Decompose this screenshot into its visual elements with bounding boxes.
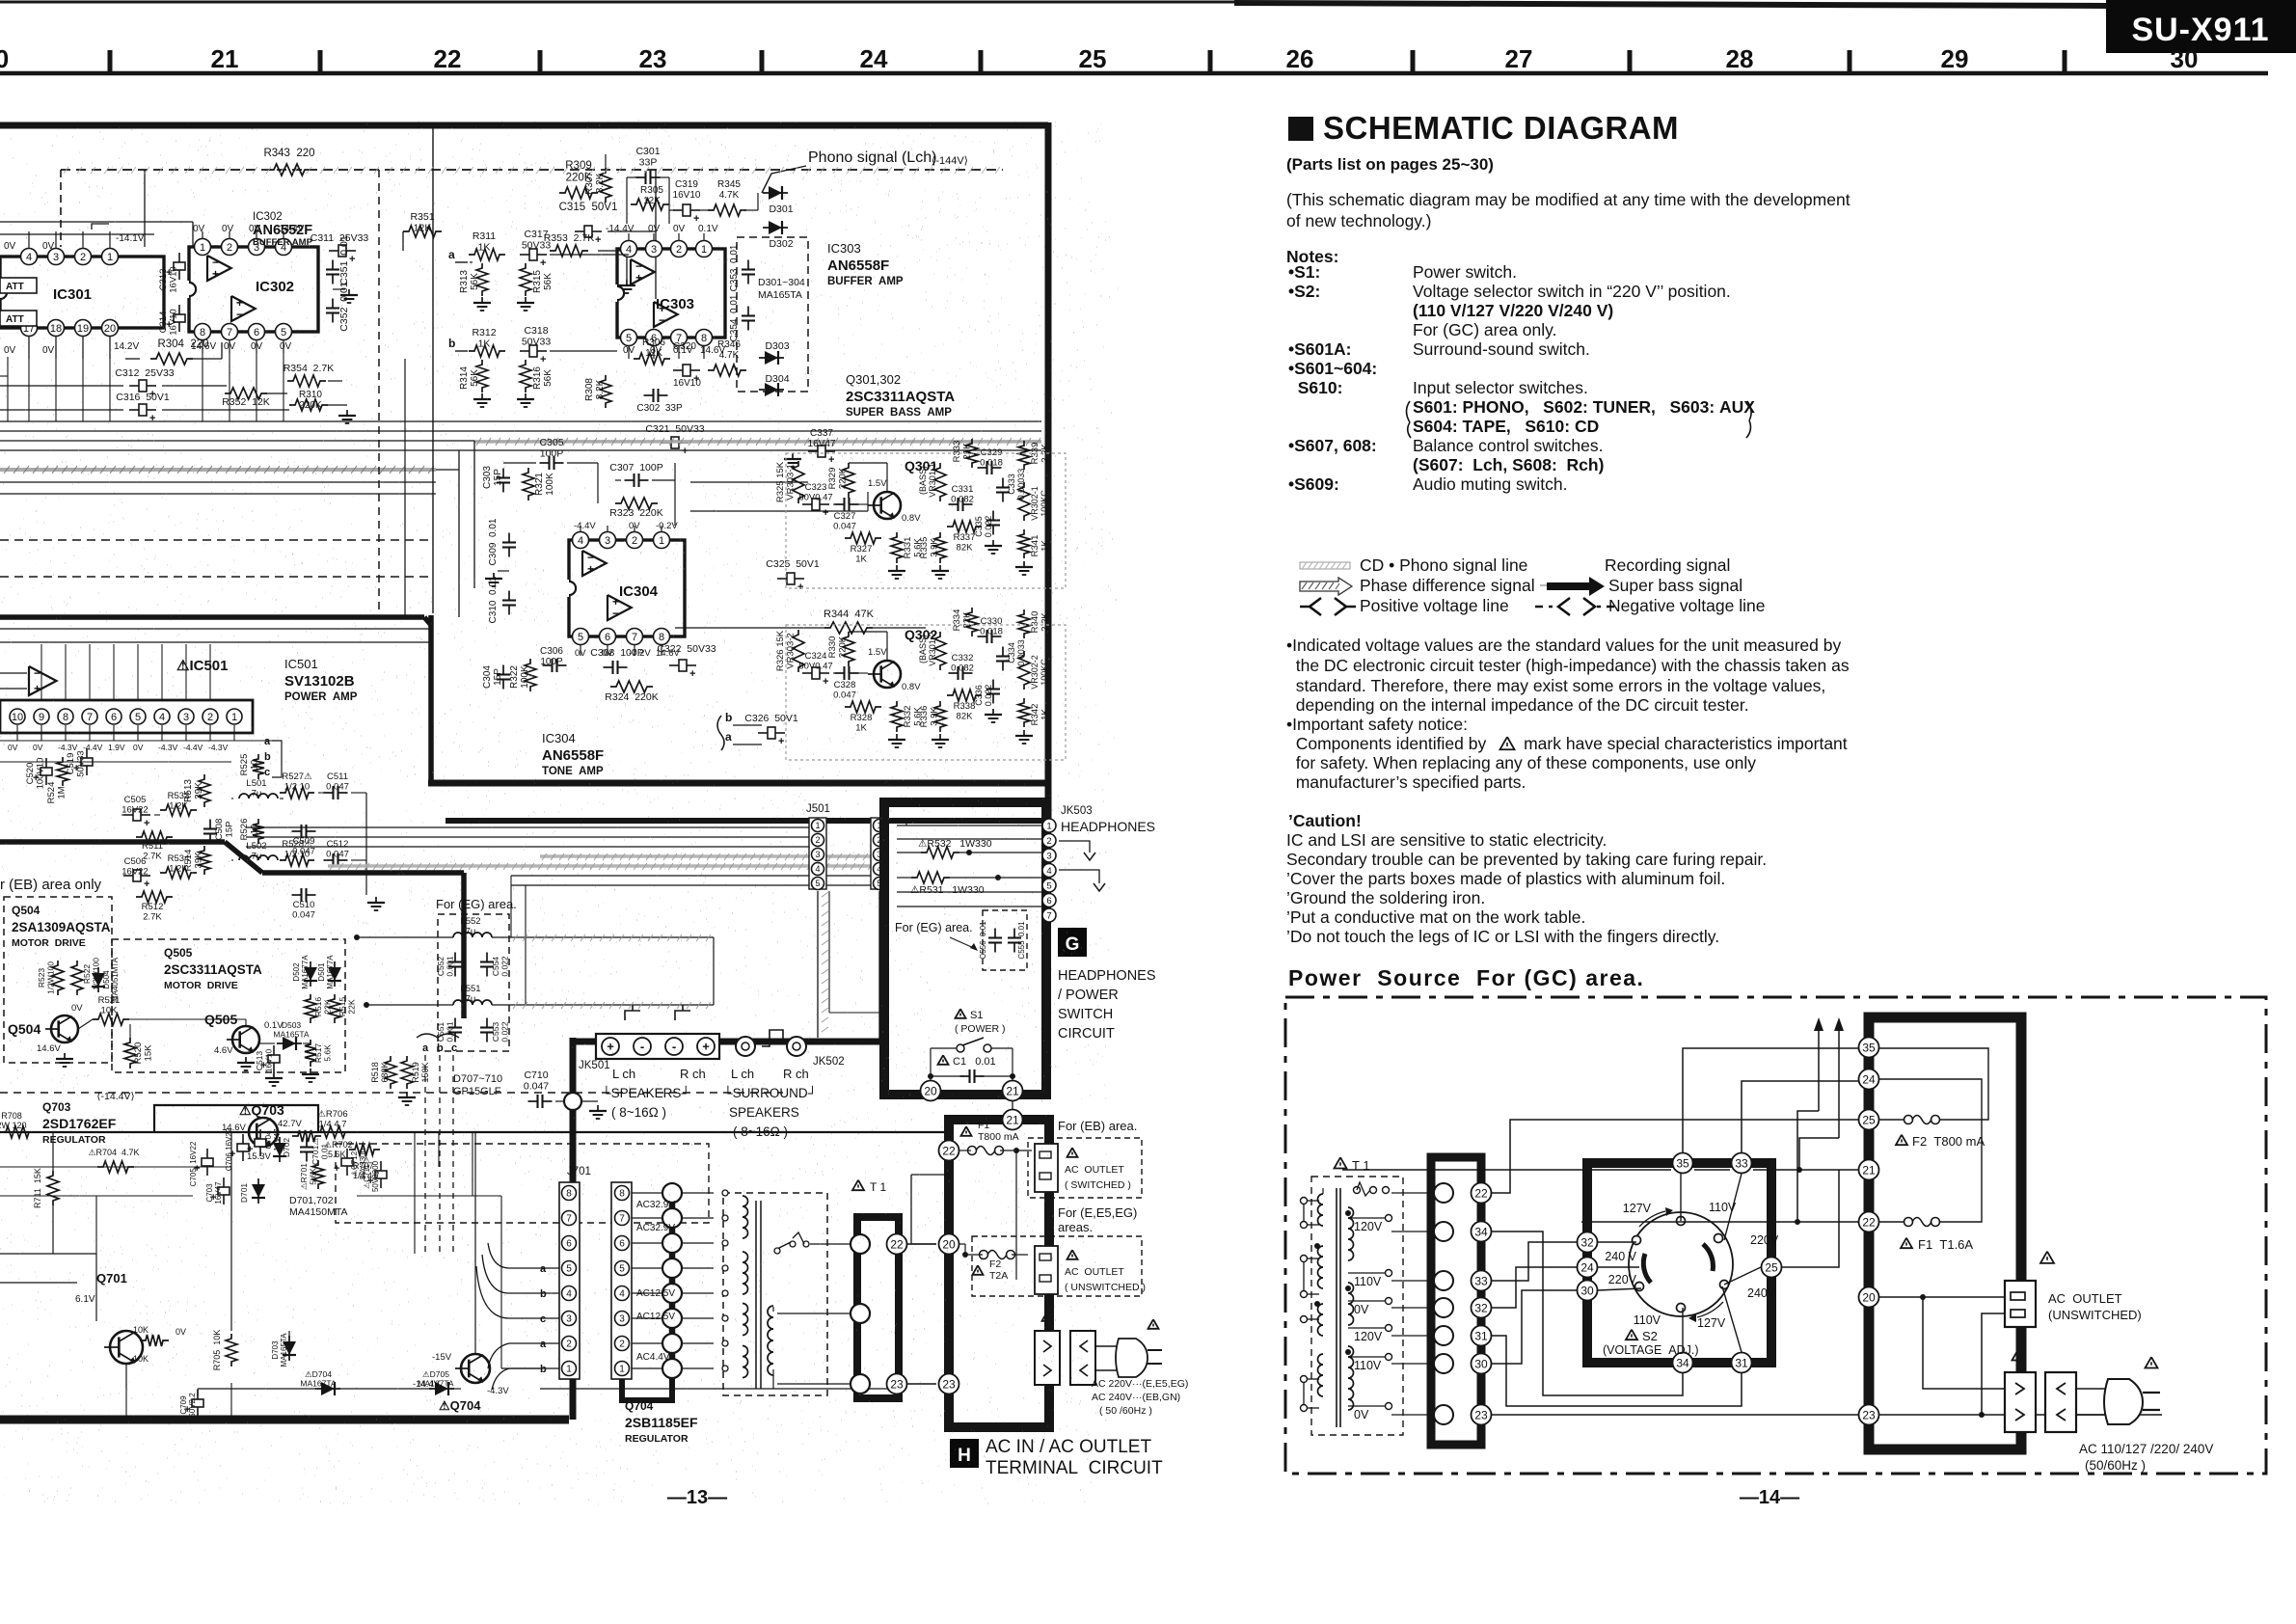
svg-text:IC303: IC303 [827,241,861,256]
svg-text:+: + [540,354,546,365]
svg-text:R340: R340 [1030,611,1040,634]
capacitor C711 [375,1171,387,1178]
svg-text:Secondary trouble can be preve: Secondary trouble can be prevented by ta… [1286,850,1767,869]
bus drop wires to speakers [510,876,512,937]
svg-text:SWITCH: SWITCH [1058,1007,1113,1022]
svg-text:R304 220: R304 220 [157,338,208,350]
IC501 opamp [29,666,57,695]
capacitor C332 0.082 [949,672,959,674]
svg-text:16V22: 16V22 [122,867,148,878]
svg-text:-4.4V: -4.4V [183,743,203,752]
svg-text:100K: 100K [545,473,555,496]
svg-text:R708: R708 [1,1111,22,1121]
power switch on secondary [777,1242,791,1249]
svg-text:R516: R516 [313,997,323,1017]
svg-text:TERMINAL CIRCUIT: TERMINAL CIRCUIT [986,1458,1163,1478]
svg-text:R520: R520 [133,1042,144,1065]
svg-text:For (EG) area.: For (EG) area. [436,897,517,911]
svg-text:33: 33 [1735,1156,1748,1170]
svg-text:16V47: 16V47 [214,1181,223,1204]
svg-text:C308 100P: C308 100P [590,647,643,659]
selector terminal 31 bottom [1732,1353,1752,1373]
resistor R526 [253,819,264,844]
svg-text:a: a [422,1042,429,1054]
AC connector circles [851,1234,870,1254]
svg-text:1: 1 [107,252,113,263]
svg-text:0.047: 0.047 [524,1081,549,1093]
svg-text:Surround-sound switch.: Surround-sound switch. [1413,339,1590,359]
svg-text:R354 2.7K: R354 2.7K [284,363,335,374]
capacitor C520 [41,768,52,775]
svg-text:7μ: 7μ [252,852,262,862]
svg-text:+: + [212,267,219,281]
resistor R345 [708,204,746,216]
IC301 package [0,257,164,328]
svg-text:GP15GLF: GP15GLF [453,1086,501,1097]
ATT box 1 [0,278,37,293]
svg-text:1K: 1K [855,723,867,734]
svg-text:L ch: L ch [731,1067,754,1081]
svg-text:7: 7 [87,712,93,723]
hatched super bass line right [474,440,1041,443]
svg-text:Power switch.: Power switch. [1413,262,1517,282]
svg-text:0V: 0V [629,521,640,531]
resistor R519 [401,1056,413,1089]
svg-text:MA165TA: MA165TA [273,1030,309,1040]
svg-text:7: 7 [632,632,637,643]
svg-text:AC4.4V: AC4.4V [636,1352,670,1363]
capacitor C313 [174,262,185,270]
svg-text:0V: 0V [648,224,661,234]
Q505 dashed box [112,939,345,1072]
svg-text:MA4150MTA: MA4150MTA [289,1206,348,1218]
speaker feed thick trace [573,1039,884,1045]
svg-text:T2A: T2A [989,1270,1008,1282]
capacitor C330 0.018 [978,636,987,637]
transformer T1 thermal fuse [1354,1187,1361,1194]
tone column wires [833,503,841,505]
top block thick border right [1045,122,1052,823]
svg-text:R336: R336 [919,706,930,728]
svg-text:2: 2 [619,1340,625,1350]
svg-text:3: 3 [651,244,657,256]
resistor R515 [329,994,340,1023]
svg-text:56K: 56K [543,369,554,387]
svg-text:16V10: 16V10 [169,266,179,292]
svg-text:R524: R524 [46,782,57,804]
svg-text:C327: C327 [834,511,856,522]
svg-text:4.7K: 4.7K [719,190,740,201]
svg-text:R307: R307 [584,172,595,195]
svg-text:b: b [725,711,732,724]
svg-text:1K: 1K [855,555,867,565]
svg-text:C511: C511 [327,771,348,782]
wire right bar 22 run [1581,1221,1858,1223]
svg-text:+: + [34,682,41,695]
svg-text:IC304: IC304 [542,731,576,745]
svg-text:30: 30 [2171,44,2199,73]
svg-text:IC501: IC501 [284,657,318,671]
resistor R523 [52,961,64,995]
capacitor C1 [938,1055,949,1065]
svg-text:+: + [334,1163,339,1175]
svg-text:(BASS): (BASS) [918,466,928,495]
svg-text:J501: J501 [806,803,830,815]
tone block link wires [690,481,808,483]
right bar internal wires [1879,1048,1988,1120]
svg-text:5: 5 [135,712,141,723]
resistor R522 [71,961,83,995]
speaker terminal strip JK501 [596,1034,719,1059]
svg-text:Phase difference signal: Phase difference signal [1360,576,1535,595]
svg-text:6: 6 [605,632,610,643]
svg-text:4: 4 [578,535,583,547]
svg-text:5.6K: 5.6K [309,1168,318,1185]
svg-text:F2: F2 [989,1259,1001,1270]
svg-text:31: 31 [1735,1356,1748,1369]
svg-text:56K: 56K [543,273,554,290]
wire right bar 21 junction [1342,1169,1671,1171]
page top edge line [0,1,1234,4]
svg-text:R522: R522 [82,964,92,985]
svg-text:Phono signal (Lch): Phono signal (Lch) [808,149,936,166]
stipple texture J501 drop [822,892,828,1032]
diode D703 [288,1336,290,1361]
T1 secondary winding [768,1306,773,1375]
svg-text:•S2:: •S2: [1288,282,1320,301]
svg-text:R321: R321 [534,473,545,496]
svg-text:2W 120: 2W 120 [0,1121,27,1130]
AC power plug [2076,1388,2108,1390]
diode D501 [334,961,336,987]
bus wires lower [0,481,436,483]
selector terminal 25 right [1762,1258,1782,1278]
svg-text:+: + [144,879,149,890]
svg-text:ATT: ATT [6,314,24,325]
svg-text:S1: S1 [970,1010,983,1021]
svg-text:C322 50V33: C322 50V33 [657,643,716,655]
svg-text:26: 26 [1286,44,1314,73]
svg-text:R512: R512 [142,902,164,912]
svg-text:2.2K: 2.2K [1040,612,1051,632]
svg-text:(UNSWITCHED): (UNSWITCHED) [2048,1308,2142,1322]
wire selector 35 to right bar 35 [1683,1048,1808,1152]
wire 20 line [911,1174,949,1176]
svg-text:G: G [1066,934,1080,955]
svg-text:100K: 100K [520,665,530,689]
svg-text:’Ground the soldering iron.: ’Ground the soldering iron. [1286,888,1485,907]
svg-text:/ POWER: / POWER [1058,988,1119,1003]
IC304 pins bottom [573,629,589,645]
svg-text:Input selector switches.: Input selector switches. [1413,378,1588,397]
svg-text:F1: F1 [978,1120,989,1131]
svg-text:0.047: 0.047 [833,522,856,532]
resistor R516 [305,994,316,1023]
svg-text:R518: R518 [370,1062,380,1083]
svg-text:D703: D703 [271,1340,280,1360]
svg-text:D702: D702 [282,1138,291,1158]
svg-text:15K: 15K [144,1044,154,1062]
inductor L551 [453,1000,492,1005]
svg-text:24: 24 [1580,1260,1594,1274]
capacitor C351 [332,260,334,270]
resistor R323 [615,498,658,509]
svg-text:34: 34 [1676,1356,1689,1369]
svg-text:-0.2V: -0.2V [656,521,678,531]
svg-text:34: 34 [1474,1225,1488,1238]
svg-text:MA1677A: MA1677A [326,955,335,989]
svg-text:+: + [587,562,594,576]
svg-text:C326 50V1: C326 50V1 [744,713,798,724]
svg-text:R330: R330 [827,636,838,659]
JK503 pins [1042,819,1056,832]
svg-text:220K: 220K [838,636,849,658]
svg-text:Negative voltage line: Negative voltage line [1608,596,1765,615]
svg-text:+: + [149,413,155,424]
svg-text:b: b [264,751,271,763]
safety mark triangle [1500,737,1515,749]
AC plug mid [1095,1345,1119,1347]
svg-text:1: 1 [231,712,237,723]
svg-text:D501: D501 [317,962,326,982]
svg-text:10K: 10K [133,1354,149,1364]
power amp block thick right side [461,873,467,1018]
svg-text:( 8~16Ω ): ( 8~16Ω ) [611,1105,666,1120]
svg-text:3: 3 [1046,851,1051,861]
svg-text:C508: C508 [214,819,225,841]
svg-text:1: 1 [701,244,707,256]
svg-text:C324: C324 [805,651,827,662]
svg-text:⚠R704 4.7K: ⚠R704 4.7K [88,1148,139,1157]
EG wires [357,936,453,938]
svg-text:MA165TA: MA165TA [758,289,802,301]
tone column wires [833,672,841,674]
resistor R521 [93,1014,129,1025]
ruler tick [2063,50,2067,73]
svg-text:1/2 10: 1/2 10 [284,782,310,793]
svg-text:0.018: 0.018 [980,458,1003,469]
svg-text:0.022: 0.022 [984,516,993,538]
svg-text:(Parts list on pages 25~30): (Parts list on pages 25~30) [1286,155,1494,174]
svg-text:R309: R309 [565,160,592,172]
svg-text:b: b [540,1364,547,1375]
svg-text:C307 100P: C307 100P [609,462,662,474]
svg-text:3: 3 [53,252,59,263]
capacitor C706 [237,1144,249,1151]
resistor R311 [469,249,505,260]
svg-text:19: 19 [77,323,89,335]
capacitor C331 0.082 [949,503,959,505]
svg-text:L552: L552 [460,916,480,927]
capacitor C712 [341,1158,353,1166]
G section badge [1058,928,1087,957]
svg-text:L501: L501 [246,778,266,789]
svg-text:C706 16V22: C706 16V22 [225,1127,233,1171]
capacitor C334 [1002,647,1004,657]
svg-text:For (EG) area.: For (EG) area. [895,921,973,934]
svg-text:16V10: 16V10 [673,378,701,389]
IC303 package [617,249,725,338]
svg-text:MA167TA: MA167TA [300,1379,336,1389]
svg-text:S601: PHONO, S602: TUNER,: S601: PHONO, S602: TUNER, S603: AUX [1413,397,1755,417]
svg-text:120V: 120V [1354,1220,1383,1233]
svg-text:T800 mA: T800 mA [978,1131,1019,1143]
svg-text:1K: 1K [478,242,491,254]
svg-text:D304: D304 [765,373,789,385]
svg-text:Q504: Q504 [12,904,41,917]
transistor Q701 [110,1331,143,1364]
svg-text:50V0.47: 50V0.47 [798,662,832,672]
resistor R706 [314,1126,351,1138]
svg-text:-14.4V: -14.4V [606,224,635,234]
svg-text:0.022: 0.022 [984,685,993,707]
svg-text:2SA1309AQSTA: 2SA1309AQSTA [12,920,111,934]
wire selector 33 to right bar 24 [1742,1081,1828,1152]
svg-text:1: 1 [566,1365,572,1375]
svg-text:25: 25 [1862,1113,1876,1126]
resistor R525 [253,754,264,779]
svg-text:S2: S2 [1642,1329,1658,1343]
capacitor C509 [292,830,302,832]
svg-text:of new technology.): of new technology.) [1286,211,1431,230]
svg-text:1: 1 [1046,821,1051,831]
IC301 pins top [21,249,38,265]
diode D302 [763,227,788,229]
transistor Q301 [874,492,901,519]
svg-text:C319: C319 [675,179,698,190]
a b c brace to regulators [417,1034,459,1038]
svg-text:R344 47K: R344 47K [824,609,875,620]
thick drop to J701 [570,1038,577,1196]
svg-text:0.082: 0.082 [951,495,974,505]
IC303 opamp [631,259,655,284]
wires to H box [907,1243,936,1245]
svg-text:AN6558F: AN6558F [542,747,604,764]
resistor R331 5.6K [891,532,903,563]
IC302 opamp B [231,296,256,321]
svg-text:Voltage selector switch in “22: Voltage selector switch in “220 V’’ posi… [1413,282,1731,301]
svg-text:3: 3 [815,850,820,859]
svg-text:12K: 12K [414,223,432,234]
svg-text:C301: C301 [635,146,660,157]
svg-text:Super bass signal: Super bass signal [1608,576,1742,595]
resistor R338 82K [947,690,982,701]
resistor R324 [610,681,653,692]
svg-text:D301~304: D301~304 [758,277,805,288]
thick line left mid [0,614,424,620]
model badge SU-X911 [2106,0,2296,53]
svg-text:VR301-1: VR301-1 [928,463,937,498]
svg-text:ATT: ATT [6,282,24,292]
svg-text:20: 20 [1862,1290,1876,1304]
capacitor C353 [747,260,749,270]
svg-text:standard. Therefore, there may: standard. Therefore, there may exist som… [1286,676,1825,695]
capacitor C337 [818,446,825,457]
svg-text:IC302: IC302 [253,211,283,223]
svg-text:16V10: 16V10 [673,190,701,201]
svg-text:D707~710: D707~710 [453,1073,502,1085]
resistor R707 [349,1144,380,1155]
power amp block wires [0,740,272,742]
dashed box diodes [737,237,808,392]
svg-text:D301: D301 [769,203,793,215]
svg-text:56K: 56K [470,273,480,290]
svg-text:20: 20 [942,1237,956,1251]
legend positive voltage line symbol [1300,598,1356,615]
svg-text:22: 22 [434,44,462,73]
svg-text:7: 7 [566,1214,572,1225]
abc curve wires [476,1243,509,1318]
svg-text:C710: C710 [524,1069,548,1081]
svg-text:8: 8 [619,1189,625,1200]
stipple texture phono rail [64,167,1000,174]
svg-text:AC32.9V: AC32.9V [636,1223,675,1233]
svg-text:the DC electronic circuit test: the DC electronic circuit tester (high-i… [1286,656,1850,675]
wire selector 25 to bar [1782,1170,1839,1267]
svg-text:7μ: 7μ [466,927,476,937]
resistor R308 [600,375,611,408]
svg-text:C315 50V1: C315 50V1 [559,202,618,213]
capacitor C312 [139,380,147,392]
svg-text:10K: 10K [133,1325,149,1335]
resistor R701 [312,1160,324,1189]
svg-text:240V: 240V [1747,1286,1776,1300]
svg-text:1: 1 [200,242,205,254]
svg-text:—13—: —13— [667,1487,727,1508]
resistor R705 [226,1334,237,1367]
IC304 package [569,540,685,636]
svg-text:15P: 15P [493,668,503,686]
transformer T1 dashed box [723,1193,827,1395]
svg-text:CD • Phono signal line: CD • Phono signal line [1360,555,1527,575]
Q703 regulator dashed box [336,1144,709,1223]
svg-text:50V33: 50V33 [522,240,552,252]
capacitor C352 [332,299,334,309]
AC outlet warning triangle [2040,1252,2054,1263]
svg-text:0.1V: 0.1V [698,224,718,234]
potentiometer VR303-2 [793,630,804,672]
svg-text:0V: 0V [222,224,234,234]
capacitor C554 [486,953,488,962]
svg-text:82K: 82K [957,543,974,554]
svg-text:C334: C334 [1007,642,1016,663]
svg-text:C321 50V33: C321 50V33 [645,423,704,435]
capacitor C323 [812,499,820,510]
svg-text:R343 220: R343 220 [263,148,314,159]
svg-text:2SC3311AQSTA: 2SC3311AQSTA [846,389,955,405]
svg-text:R308: R308 [584,378,595,401]
svg-text:R310: R310 [299,390,322,400]
svg-text:18: 18 [50,323,62,335]
svg-text:0.082: 0.082 [951,663,974,674]
svg-text:HEADPHONES: HEADPHONES [1061,819,1155,834]
ruler tick [1411,50,1416,73]
svg-text:27: 27 [1505,44,1533,73]
svg-text:AC OUTLET: AC OUTLET [1065,1164,1124,1176]
svg-text:23: 23 [942,1377,956,1391]
svg-text:AN6558F: AN6558F [827,257,889,274]
svg-text:IC301: IC301 [53,286,92,303]
svg-text:R515: R515 [338,997,347,1017]
power source dash-dot border [1285,997,2266,1474]
svg-text:’Caution!: ’Caution! [1288,811,1362,830]
svg-text:-14.1V: -14.1V [116,233,145,244]
svg-text:’Cover the parts boxes made of: ’Cover the parts boxes made of plastics … [1286,869,1725,888]
plug warning triangle [2146,1357,2158,1367]
svg-text:C354 0.01: C354 0.01 [729,294,740,341]
svg-text:C333: C333 [1007,474,1016,495]
stippled recording wires [540,854,879,858]
